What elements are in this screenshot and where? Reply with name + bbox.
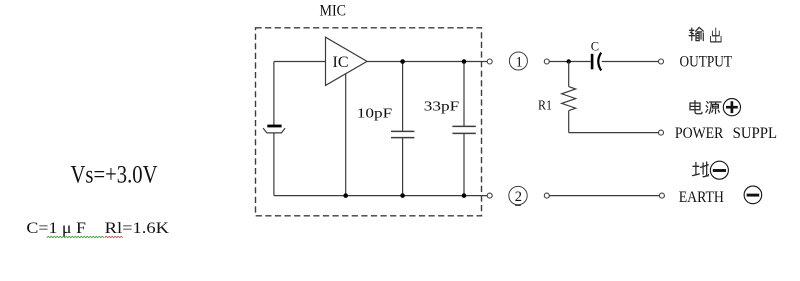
junction: 33pF bottom node — [462, 193, 467, 198]
junction: IC ground at rail — [343, 193, 348, 198]
microphone element MIC capsule (top plate) — [267, 125, 281, 128]
svg-text:33pF: 33pF — [424, 98, 460, 113]
svg-text:POWER: POWER — [675, 125, 724, 142]
node ① marker — [509, 52, 527, 71]
spellcheck squiggle red — [105, 236, 123, 237]
wire: IC ground pin down — [345, 74, 347, 196]
junction: R1 tap — [567, 59, 571, 63]
wire: R1 to POWER SUPPLY terminal — [569, 132, 659, 134]
spellcheck squiggle green — [47, 236, 104, 237]
wire: left vertical to mic element top — [273, 62, 275, 126]
resistor R1 — [562, 62, 576, 133]
capacitor 10pF (body) — [391, 62, 414, 196]
svg-text:C=1 μ F: C=1 μ F — [26, 218, 86, 237]
terminal: OUTPUT (open circle) — [659, 59, 664, 64]
svg-text:C: C — [591, 39, 599, 53]
dashed enclosure (MIC module boundary) — [256, 28, 482, 216]
terminal: POWER SUPPLY (open circle) — [659, 130, 664, 135]
polarity symbol minus (standalone) — [744, 186, 762, 204]
label 电源 (Chinese: power) — [690, 101, 721, 114]
polarity symbol plus (power positive) — [723, 99, 740, 116]
wire: capacitor C to OUTPUT terminal — [602, 61, 659, 63]
polarity symbol minus (earth negative) — [710, 161, 728, 179]
op-amp IC (amplifier triangle) — [326, 37, 368, 85]
svg-text:OUTPUT: OUTPUT — [680, 52, 733, 71]
capacitor C (curved plate) — [598, 53, 601, 71]
wire: IC input from mic — [274, 61, 326, 63]
junction: 33pF top node — [462, 59, 467, 64]
junction: 10pF bottom node — [400, 193, 405, 198]
microphone element MIC capsule (lower electrode) — [263, 128, 285, 133]
svg-text:1: 1 — [516, 55, 523, 71]
svg-text:Vs=+3.0V: Vs=+3.0V — [71, 162, 158, 189]
capacitor C (polarized, left plate) — [591, 54, 594, 70]
svg-text:IC: IC — [333, 54, 349, 71]
terminal: MIC output pin (open circle) — [487, 59, 492, 64]
svg-text:R1: R1 — [538, 99, 552, 114]
terminal: external ground left (open circle, node 2) — [544, 193, 549, 198]
wire: mic element to ground rail — [273, 133, 275, 196]
svg-text:SUPPL: SUPPL — [733, 125, 778, 142]
wire: bottom ground rail — [274, 195, 487, 197]
terminal: EARTH (open circle) — [659, 193, 664, 198]
node ② marker — [509, 186, 527, 205]
wire: node 1 to capacitor C — [549, 61, 590, 63]
svg-text:Rl=1.6K: Rl=1.6K — [105, 218, 170, 237]
terminal: MIC ground pin (open circle) — [487, 193, 492, 198]
junction: 10pF top node — [400, 59, 405, 64]
svg-text:10pF: 10pF — [357, 105, 393, 120]
svg-text:2: 2 — [515, 189, 522, 205]
label 输出 (Chinese: output) — [689, 27, 721, 41]
svg-text:MIC: MIC — [320, 3, 347, 20]
capacitor 33pF (body) — [452, 62, 475, 196]
wire: top output rail — [367, 61, 487, 63]
svg-text:EARTH: EARTH — [679, 189, 725, 206]
terminal: external circuit input (open circle, node 1) — [544, 59, 549, 64]
wire: ground run to EARTH terminal — [549, 195, 659, 197]
label 地 (Chinese: earth) — [693, 162, 709, 177]
